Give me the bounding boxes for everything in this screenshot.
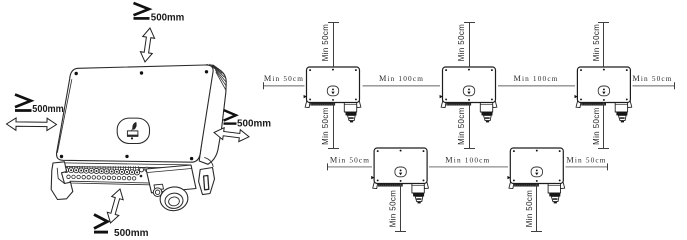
svg-text:500mm: 500mm xyxy=(237,118,271,129)
svg-text:Min 50cm: Min 50cm xyxy=(264,74,304,83)
svg-text:Min 50cm: Min 50cm xyxy=(330,155,370,164)
svg-text:Min 50cm: Min 50cm xyxy=(321,107,330,145)
svg-text:Min 50cm: Min 50cm xyxy=(566,155,606,164)
svg-text:Min 50cm: Min 50cm xyxy=(321,24,330,62)
svg-text:500mm: 500mm xyxy=(114,228,149,239)
svg-text:Min 50cm: Min 50cm xyxy=(525,190,534,228)
svg-text:Min 50cm: Min 50cm xyxy=(389,190,398,228)
svg-text:Min 50cm: Min 50cm xyxy=(457,24,466,62)
svg-text:500mm: 500mm xyxy=(32,104,64,115)
svg-text:Min 50cm: Min 50cm xyxy=(592,24,601,62)
svg-text:Min 100cm: Min 100cm xyxy=(379,74,424,83)
svg-text:500mm: 500mm xyxy=(151,12,185,23)
svg-text:Min 100cm: Min 100cm xyxy=(513,74,558,83)
svg-text:Min 50cm: Min 50cm xyxy=(457,107,466,145)
svg-text:Min 100cm: Min 100cm xyxy=(445,155,490,164)
svg-text:Min 50cm: Min 50cm xyxy=(592,107,601,145)
svg-text:Min 50cm: Min 50cm xyxy=(632,74,672,83)
